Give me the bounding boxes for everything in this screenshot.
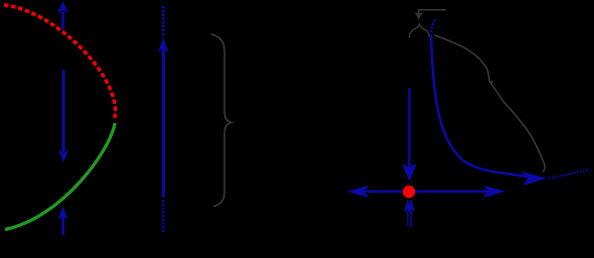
blue down arrow between branches [58, 70, 68, 163]
gray overbrace (horizontal curly) [409, 24, 429, 38]
blue dotted tail of separatrix [549, 169, 590, 179]
blue up arrow above unstable branch [57, 1, 68, 30]
phase line: up arrowhead [158, 38, 169, 53]
phase line: dotted top segment [162, 6, 165, 37]
red dashed unstable equilibrium branch [4, 5, 115, 118]
red saddle-node equilibrium dot [403, 186, 415, 198]
blue vertical arrow down to equilibrium [402, 88, 417, 182]
gray elbow arrow pointing down [415, 10, 446, 20]
blue left arrowhead [347, 185, 369, 197]
green stable equilibrium branch [5, 123, 115, 230]
blue small double up arrows below equilibrium [404, 199, 415, 227]
blue arrowhead on separatrix [521, 171, 547, 185]
gray trajectory upper [434, 35, 545, 172]
phase line: solid shaft [162, 48, 165, 197]
blue separatrix curve into saddle-node [431, 35, 529, 177]
phase line: dotted bottom segment [162, 200, 165, 233]
blue dotted lead-in at top of separatrix [431, 20, 435, 36]
gray barb arrowhead on trajectory [488, 79, 494, 86]
blue horizontal line through equilibrium [360, 190, 492, 193]
blue up arrow below stable branch [58, 206, 68, 235]
gray curly brace [211, 34, 232, 207]
blue right arrowhead [483, 185, 505, 197]
